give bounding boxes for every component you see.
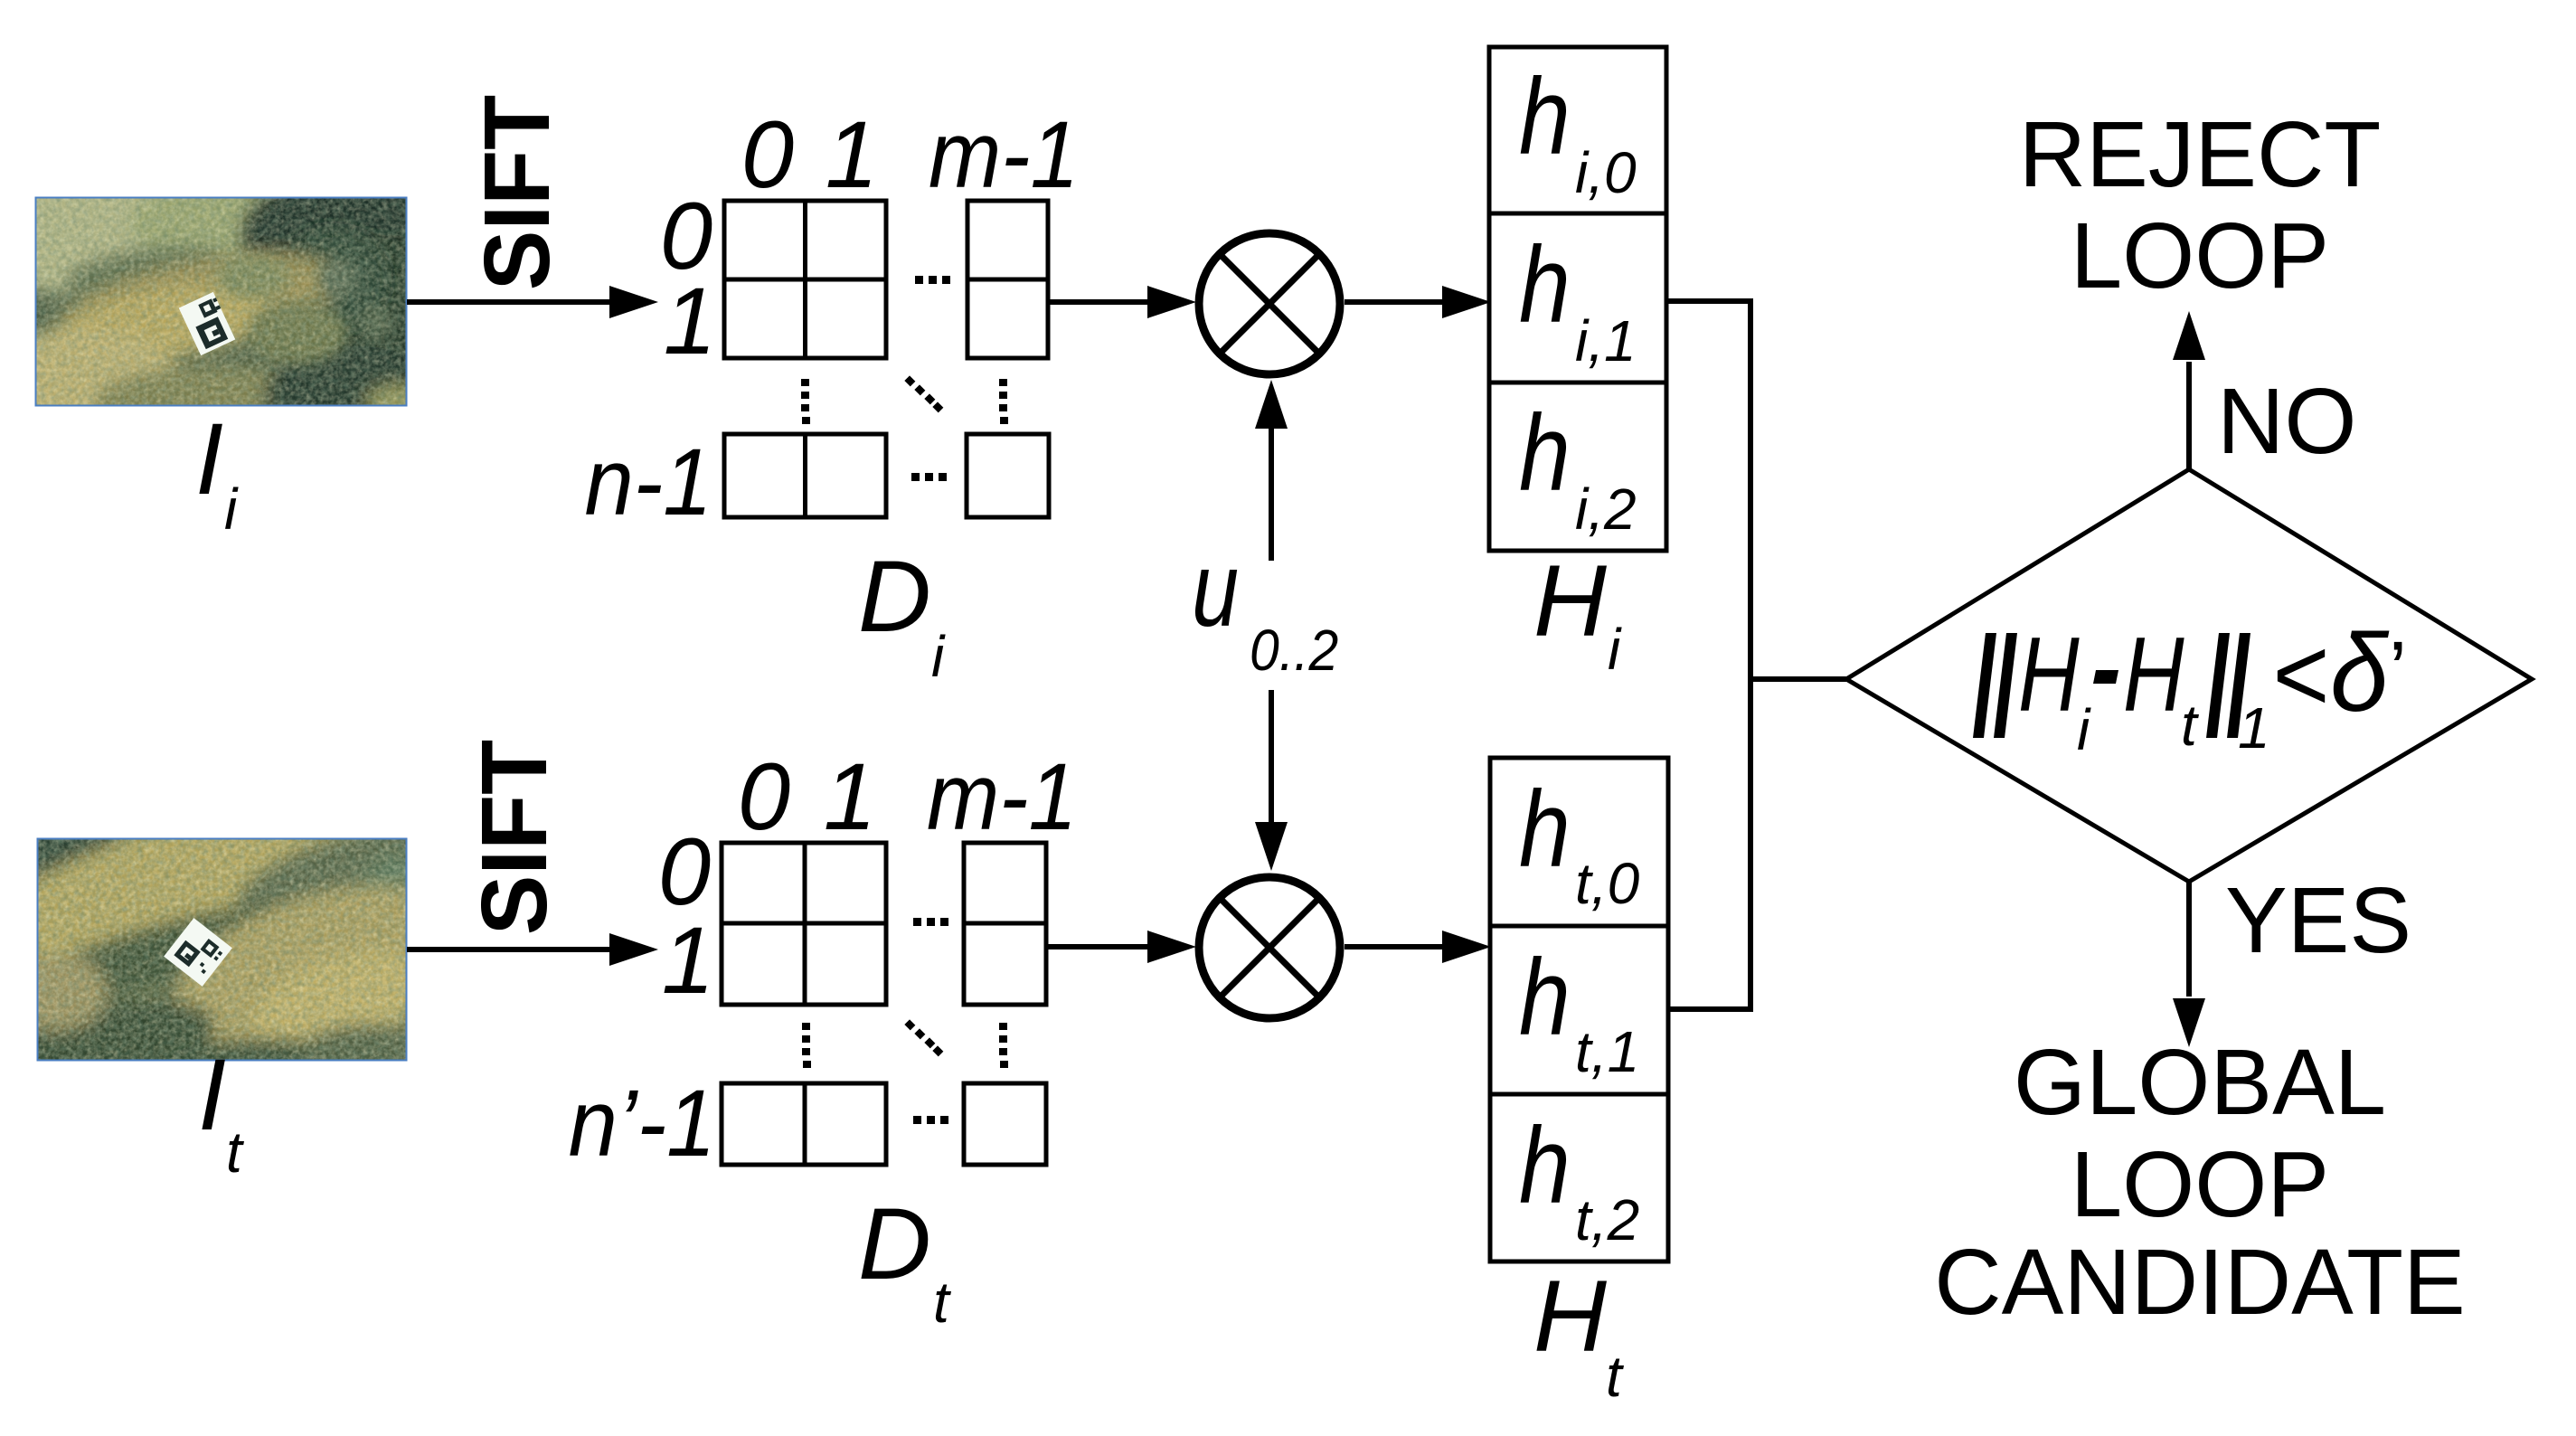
- svg-text:h: h: [1519, 1104, 1571, 1226]
- svg-text:t,1: t,1: [1575, 1019, 1639, 1084]
- svg-text:1: 1: [664, 269, 716, 374]
- svg-text:0: 0: [741, 102, 794, 208]
- svg-text:i: i: [931, 624, 946, 689]
- svg-text:1: 1: [824, 744, 876, 850]
- svg-text:SIFT: SIFT: [465, 95, 570, 290]
- svg-text:i: i: [1608, 617, 1622, 682]
- svg-text:h: h: [1519, 768, 1571, 890]
- svg-text:n-1: n-1: [584, 430, 712, 535]
- svg-text:GLOBAL: GLOBAL: [2014, 1030, 2386, 1134]
- svg-text:H: H: [2018, 616, 2080, 733]
- svg-text:REJECT: REJECT: [2019, 102, 2382, 206]
- svg-text:m-1: m-1: [929, 102, 1079, 208]
- svg-text:i,0: i,0: [1575, 140, 1637, 205]
- svg-text:I: I: [198, 1038, 226, 1151]
- svg-text:LOOP: LOOP: [2071, 1132, 2329, 1236]
- svg-text:LOOP: LOOP: [2071, 203, 2329, 307]
- svg-text:1: 1: [826, 102, 878, 208]
- svg-text:0..2: 0..2: [1250, 619, 1338, 684]
- svg-text:t,0: t,0: [1575, 851, 1640, 916]
- svg-text:D: D: [858, 540, 931, 653]
- svg-text:’: ’: [2389, 626, 2407, 716]
- svg-text:t: t: [933, 1270, 951, 1335]
- svg-text:n’-1: n’-1: [569, 1071, 716, 1176]
- svg-text:i: i: [224, 477, 239, 542]
- svg-text:t: t: [226, 1120, 244, 1185]
- svg-text:t,2: t,2: [1575, 1187, 1639, 1252]
- svg-text:i,2: i,2: [1575, 477, 1637, 542]
- svg-text:D: D: [858, 1187, 931, 1300]
- svg-text:t: t: [2181, 693, 2199, 758]
- svg-text:u: u: [1192, 531, 1239, 648]
- svg-text:t: t: [1606, 1344, 1624, 1409]
- svg-text:H: H: [2123, 616, 2184, 733]
- svg-text:0: 0: [738, 744, 790, 850]
- svg-text:H: H: [1533, 544, 1607, 657]
- svg-text:I: I: [195, 402, 223, 515]
- svg-text:h: h: [1519, 936, 1571, 1058]
- svg-text:h: h: [1519, 392, 1571, 514]
- svg-text:1: 1: [662, 908, 714, 1014]
- svg-text:m-1: m-1: [927, 744, 1077, 850]
- svg-text:δ: δ: [2330, 611, 2390, 734]
- svg-text:SIFT: SIFT: [462, 740, 567, 935]
- svg-text:h: h: [1519, 223, 1571, 345]
- svg-text:YES: YES: [2225, 868, 2411, 972]
- svg-text:H: H: [1533, 1260, 1607, 1373]
- svg-text:<: <: [2271, 615, 2328, 733]
- svg-text:i: i: [2077, 697, 2091, 762]
- svg-text:NO: NO: [2217, 369, 2357, 473]
- svg-text:h: h: [1519, 55, 1571, 177]
- svg-text:CANDIDATE: CANDIDATE: [1934, 1230, 2466, 1334]
- svg-text:i,1: i,1: [1575, 308, 1637, 373]
- svg-text:1: 1: [2238, 695, 2270, 761]
